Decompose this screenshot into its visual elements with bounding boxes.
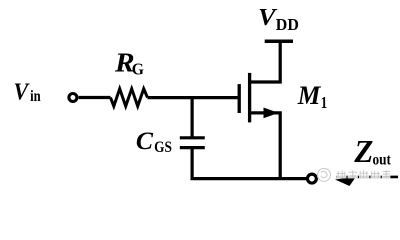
resistor R_G <box>111 89 148 106</box>
svg-text:GS: GS <box>154 139 172 156</box>
wire capacitor to bottom rail <box>191 148 194 179</box>
wire gate node to capacitor <box>191 96 194 138</box>
label C_GS <box>136 127 172 156</box>
output terminal Zout <box>307 174 316 183</box>
transistor M1 source arrow <box>264 108 279 119</box>
watermark arrow head <box>335 177 356 186</box>
label V_in <box>14 78 41 105</box>
wire drain to VDD <box>250 41 280 82</box>
transistor M1 channel bar <box>248 73 251 123</box>
watermark text <box>336 170 390 179</box>
svg-text:1: 1 <box>321 95 328 113</box>
input terminal Vin <box>69 94 77 102</box>
svg-text:V: V <box>258 3 277 30</box>
capacitor C_GS <box>180 138 205 148</box>
svg-text:G: G <box>132 60 145 79</box>
wire input to resistor <box>79 96 111 99</box>
power V_DD bar <box>265 39 293 43</box>
label R_G <box>114 49 144 79</box>
svg-text:in: in <box>30 88 41 106</box>
svg-text:V: V <box>14 78 30 105</box>
wire resistor to gate <box>148 96 238 99</box>
wire bottom rail <box>191 177 307 180</box>
label M_1 <box>297 81 327 113</box>
watermark arrow line <box>336 176 398 179</box>
wire source to output rail <box>250 113 280 179</box>
svg-text:M: M <box>297 81 321 111</box>
svg-text:out: out <box>373 151 392 168</box>
label Z_out <box>353 134 391 169</box>
svg-text:Z: Z <box>353 134 373 169</box>
svg-text:C: C <box>136 127 154 155</box>
transistor M1 gate bar <box>238 84 241 113</box>
label V_DD <box>258 3 299 34</box>
watermark logo circle <box>318 168 331 181</box>
svg-text:DD: DD <box>276 14 299 34</box>
